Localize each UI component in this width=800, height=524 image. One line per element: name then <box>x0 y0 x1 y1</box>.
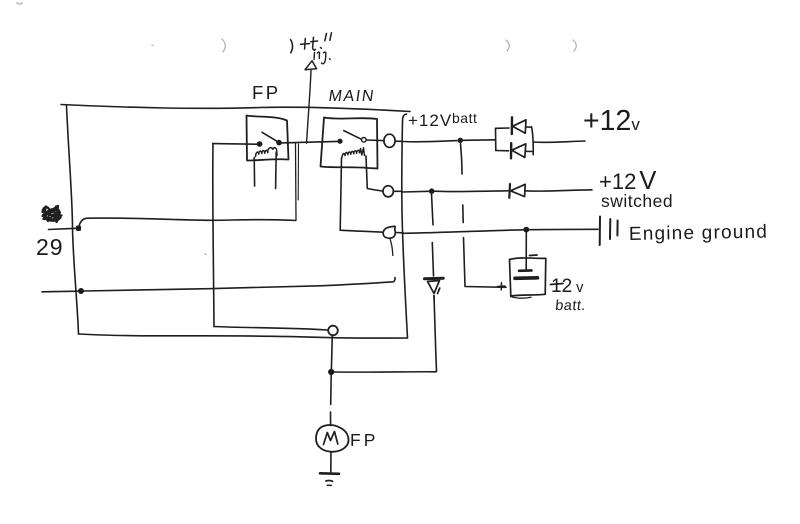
svg-text:FP: FP <box>252 82 281 103</box>
svg-text:batt.: batt. <box>554 298 586 314</box>
MAIN switch output wire <box>366 139 384 142</box>
relay FP box <box>247 116 289 161</box>
wire B: lower left stub <box>42 290 78 293</box>
label 29 <box>36 234 64 260</box>
diode D3 (triangle) <box>511 184 526 196</box>
wire vertical link second stroke <box>297 144 299 200</box>
engine ground bar1 <box>599 217 601 246</box>
faint smudge top-left corner <box>17 3 22 4</box>
wire A: node29 to FP output drop <box>79 218 296 226</box>
node 29 stub wire <box>49 228 77 229</box>
wire battery to row1 (segment 2) <box>462 205 464 223</box>
wire row1 right <box>533 141 585 142</box>
wire row1 to diode pair <box>463 139 495 142</box>
svg-text:+12V: +12V <box>408 111 452 130</box>
wire right bus (+12V batt rail) <box>402 114 408 338</box>
svg-text:+12v: +12v <box>583 105 640 137</box>
wire B junction dot <box>78 288 84 294</box>
label batt. <box>554 298 586 314</box>
wire pin3 to right bus <box>396 232 404 234</box>
handwriting )+t.'' <box>291 33 332 53</box>
motor ground lead <box>330 452 332 472</box>
diode D4 (triangle) <box>428 281 440 294</box>
MAIN coil lead left to pin3 <box>340 158 383 232</box>
svg-text:FP: FP <box>350 430 378 450</box>
svg-text:MAIN: MAIN <box>327 87 376 105</box>
label switched <box>601 191 673 211</box>
faint speck 1 <box>152 44 153 47</box>
terminal circle pin3 <box>383 226 395 238</box>
wire battery to row1 (segment 1) <box>461 144 463 175</box>
diode pair top branch wire <box>496 127 510 129</box>
FP coil lead left <box>253 158 255 187</box>
label 24 (scribbled out) <box>43 206 62 222</box>
MAIN switch blade <box>344 131 362 140</box>
wire bottom bus <box>79 334 408 338</box>
relay MAIN box <box>321 118 378 169</box>
wire motor junction to diode branch <box>334 371 436 373</box>
wire vertical link FP-output down <box>295 144 298 221</box>
label 12V (battery) <box>551 276 584 297</box>
wire row2 left <box>403 190 429 193</box>
wire pin2 to right bus <box>393 190 402 192</box>
battery B1 box <box>510 258 546 296</box>
label MAIN <box>327 87 376 105</box>
motor M letter <box>324 432 338 445</box>
svg-text:12v: 12v <box>551 276 584 297</box>
diode D3 (bar) <box>508 184 511 198</box>
diode pair right bracket <box>532 127 534 155</box>
handwriting inj. <box>314 50 330 64</box>
diode D4 line middle <box>432 243 433 277</box>
diode D4 line lower <box>433 296 435 301</box>
FP switch left contact <box>257 141 263 147</box>
engine ground bar3 <box>616 221 618 236</box>
battery positive plate <box>515 276 538 280</box>
diode D2 bottom (bar) <box>510 143 513 158</box>
wire left bus <box>67 106 79 334</box>
label +12V batt <box>408 110 477 130</box>
wire motor drop upper <box>330 336 333 370</box>
battery negative plate <box>519 269 532 272</box>
row2 junction dot <box>429 188 435 194</box>
MAIN switch right contact (open circle) <box>362 138 367 143</box>
arrow to injectors (head) <box>305 61 317 70</box>
wire top bus <box>61 105 410 112</box>
faint smudge arc left <box>222 39 225 52</box>
inner box terminal circle <box>328 326 338 336</box>
row3 junction dot <box>523 227 529 233</box>
terminal circle pin2 <box>383 186 393 197</box>
motor junction dot <box>328 369 334 375</box>
wire B: to right bus <box>84 278 395 292</box>
terminal circle pin1 <box>384 134 395 147</box>
wire row3 <box>404 229 598 233</box>
MAIN coil lead right to pin2 <box>366 156 383 191</box>
svg-text:Engine ground: Engine ground <box>629 222 769 245</box>
diode D1 wire to right bracket <box>526 126 532 128</box>
wire motor drop lower <box>330 375 333 426</box>
label +12 V <box>599 167 656 195</box>
FP coil lead right <box>275 152 278 189</box>
svg-text:switched: switched <box>601 191 673 211</box>
motor M1 body <box>316 425 349 452</box>
row1 junction dot <box>458 138 463 143</box>
wire FP to MAIN link <box>281 141 338 143</box>
ground dash 1 <box>326 479 333 482</box>
wire FP input stub <box>213 143 257 146</box>
node 29 junction dot <box>76 226 81 232</box>
inner box left wire <box>213 144 214 327</box>
diode pair bottom branch wire <box>496 150 509 152</box>
engine ground bar2 <box>609 219 611 239</box>
pin3 pigtail <box>390 239 393 256</box>
label Engine ground <box>629 222 769 245</box>
label FP (motor) <box>350 430 378 450</box>
strike mark on 12 <box>551 284 564 285</box>
wire row2 right <box>525 190 592 191</box>
diode D4 line upper <box>432 194 434 225</box>
MAIN coil <box>342 148 365 158</box>
diode D2 bottom (triangle) <box>512 144 526 158</box>
FP coil <box>256 148 278 157</box>
diode D1 top (bar) <box>511 117 514 134</box>
MAIN switch left contact <box>337 139 342 144</box>
ground bar <box>320 472 339 475</box>
diode D2 wire to right bracket <box>525 150 533 152</box>
wire battery to row1 (segment 3) <box>464 238 507 288</box>
faint speck 2 <box>204 253 207 256</box>
FP switch right contact <box>276 140 282 146</box>
battery plus sign <box>498 283 506 290</box>
faint smudge arc right <box>573 40 576 51</box>
inner box bottom wire <box>214 327 328 331</box>
ground dash 2 <box>327 484 331 486</box>
wire row2 to diode <box>435 190 509 193</box>
label +12v <box>583 105 640 137</box>
wire diode branch vertical <box>434 296 437 372</box>
arrow to injectors (shaft) <box>307 71 311 144</box>
label FP <box>252 82 281 103</box>
wire pin1 to right bus <box>395 140 402 142</box>
faint smudge arc mid <box>506 40 509 51</box>
battery minus sign <box>530 254 538 257</box>
battery lead from row3 <box>525 233 527 271</box>
battery box bottom double stroke <box>511 297 532 299</box>
svg-text:batt: batt <box>452 110 477 126</box>
FP switch blade <box>262 132 278 141</box>
diode D1 top (triangle) <box>513 120 527 133</box>
wire row1 left <box>403 141 457 142</box>
diode D4 (bar) <box>425 277 444 281</box>
svg-text:29: 29 <box>36 234 64 260</box>
diode pair left bracket <box>495 128 497 150</box>
